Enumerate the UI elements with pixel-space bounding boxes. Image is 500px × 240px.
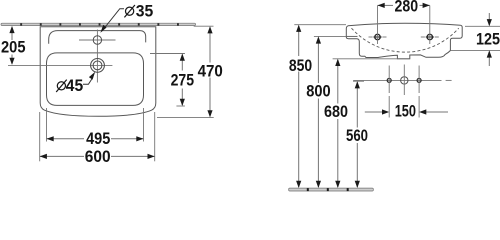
svg-text:850: 850 bbox=[289, 57, 312, 75]
label Ø45 leader bbox=[83, 78, 93, 85]
dim 125 ext lines bbox=[451, 26, 500, 50]
drain hole center (front view) bbox=[401, 77, 408, 84]
washbasin outer outline (top view) bbox=[40, 27, 156, 117]
dim 150 line tails bbox=[365, 111, 448, 113]
svg-text:125: 125 bbox=[476, 31, 500, 49]
dim 800 ext line bbox=[314, 35, 346, 37]
drain hole center vertical bbox=[403, 65, 405, 96]
front view hidden bowl dashed arc bbox=[352, 28, 459, 52]
floor bar hatch ticks bbox=[307, 188, 349, 191]
dim 560 arrows bbox=[355, 81, 360, 188]
drain hole circles bbox=[91, 59, 105, 73]
label Ø35 diameter symbol bbox=[124, 5, 134, 17]
dim 600 arrows bbox=[40, 154, 155, 159]
tap hole crosshair horizontal bbox=[79, 39, 116, 41]
drain centerline horizontal bbox=[8, 64, 112, 66]
dim 275 ext lines bbox=[150, 54, 185, 107]
dim 600 line bbox=[40, 155, 155, 157]
mounting hole right bbox=[417, 78, 421, 82]
label Ø35 arrowhead bbox=[100, 25, 106, 33]
dim 125 arrows bbox=[487, 19, 492, 58]
dim 495 arrows bbox=[47, 136, 144, 141]
dim 470 arrows bbox=[207, 26, 212, 117]
mounting holes centerline bbox=[353, 79, 451, 81]
mounting hole left vertical bbox=[388, 66, 390, 94]
label Ø45 arrowhead bbox=[89, 72, 95, 80]
dim 850 arrows bbox=[296, 25, 301, 188]
dim 470 ext lines bbox=[157, 26, 214, 117]
svg-text:470: 470 bbox=[198, 63, 223, 81]
front view shelf top line left bbox=[346, 35, 357, 37]
dim 280 arrows bbox=[378, 3, 430, 8]
dim 275 line bbox=[181, 55, 183, 106]
front view basin outline bbox=[346, 23, 462, 59]
dim 125 line bbox=[488, 13, 490, 66]
svg-text:275: 275 bbox=[171, 71, 194, 89]
centerline vertical through tap and drain bbox=[96, 30, 98, 83]
svg-text:495: 495 bbox=[86, 130, 110, 148]
dim 205 arrows bbox=[9, 26, 14, 65]
tap hole left crosshair bbox=[369, 6, 387, 45]
dim 495 line bbox=[47, 138, 144, 140]
dim 150 arrows bbox=[382, 109, 426, 114]
dim 470 line bbox=[209, 27, 211, 116]
label Ø35 leader bbox=[102, 9, 124, 31]
mounting hole left bbox=[387, 78, 391, 82]
svg-text:45: 45 bbox=[66, 77, 83, 95]
dim 800 line bbox=[317, 38, 319, 187]
dim 280 line bbox=[378, 4, 430, 6]
tap hole left (front view) bbox=[373, 34, 381, 39]
dim 680 line bbox=[337, 60, 339, 187]
mounting hole right vertical bbox=[418, 66, 420, 94]
svg-text:205: 205 bbox=[1, 39, 26, 57]
dim 150 ext lines bbox=[389, 96, 419, 118]
tap hole right crosshair bbox=[421, 6, 439, 45]
svg-text:280: 280 bbox=[395, 0, 419, 16]
dim 560 line bbox=[356, 82, 358, 187]
label Ø45 diameter symbol bbox=[56, 80, 66, 92]
svg-text:680: 680 bbox=[324, 103, 348, 121]
svg-text:800: 800 bbox=[306, 83, 330, 101]
svg-text:35: 35 bbox=[136, 2, 154, 20]
tap hole circle bbox=[93, 36, 101, 44]
dim 680 ext line bbox=[333, 58, 410, 60]
dim 850 line bbox=[298, 26, 300, 187]
dim 800 arrows bbox=[316, 36, 321, 188]
dim 560 ext line bbox=[353, 80, 364, 82]
deck inner rim line (top view) bbox=[49, 31, 146, 44]
dim 205 line bbox=[11, 28, 13, 64]
dim 850 ext line bbox=[294, 24, 346, 26]
svg-text:560: 560 bbox=[346, 127, 368, 145]
dim 495 ext lines bbox=[47, 108, 144, 142]
wall bar (top view section) bbox=[1, 23, 196, 25]
floor bar bbox=[289, 188, 374, 191]
dim 680 arrows bbox=[335, 59, 340, 188]
dim 275 arrows bbox=[180, 54, 185, 107]
svg-text:600: 600 bbox=[85, 148, 111, 166]
svg-text:150: 150 bbox=[395, 103, 416, 121]
dim 600 ext lines bbox=[40, 112, 155, 161]
bowl outline (top view) bbox=[47, 53, 144, 106]
tap hole right (front view) bbox=[426, 34, 434, 39]
wall bar hatch ticks bbox=[20, 23, 179, 25]
